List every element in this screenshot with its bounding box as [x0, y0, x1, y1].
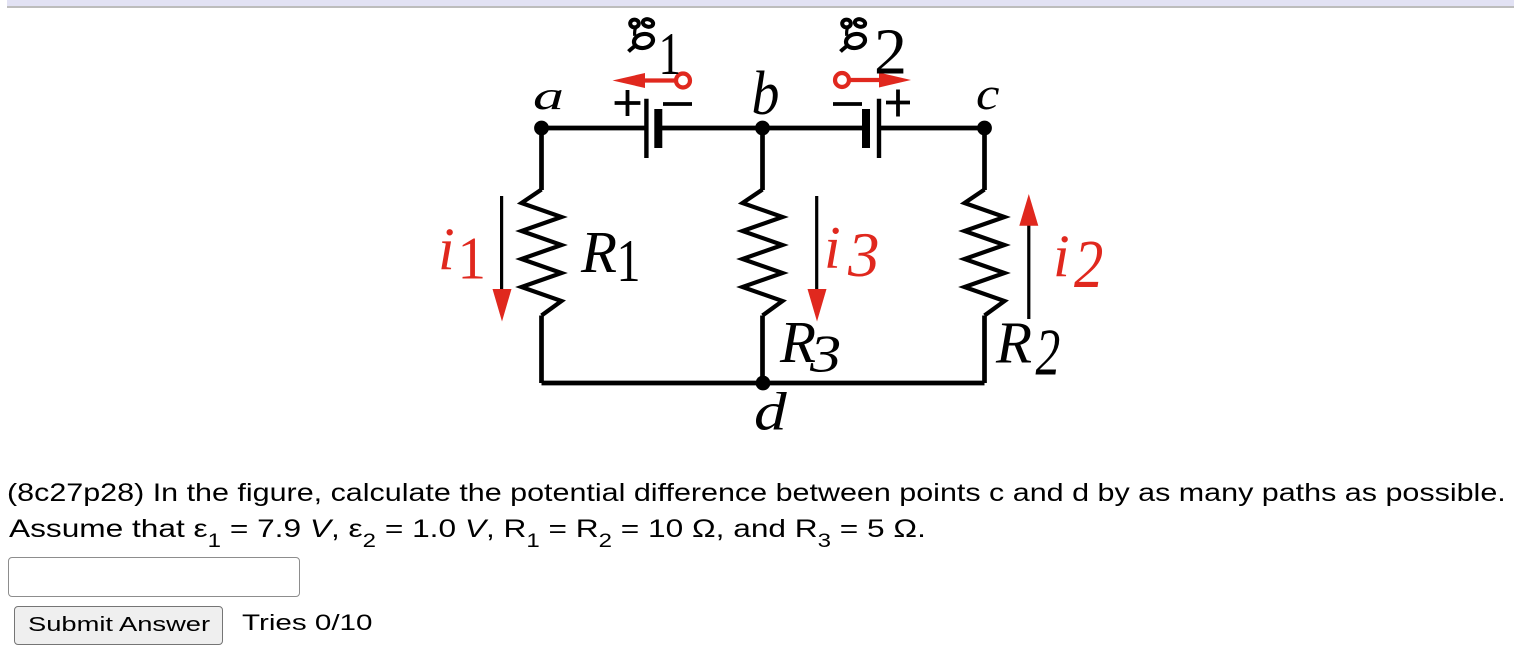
svg-text:1: 1	[659, 22, 681, 88]
svg-text:i: i	[1053, 223, 1070, 289]
svg-text:1: 1	[617, 228, 641, 294]
svg-text:2: 2	[1074, 226, 1103, 303]
svg-text:b: b	[752, 58, 780, 127]
svg-text:3: 3	[847, 220, 880, 290]
svg-text:2: 2	[1036, 314, 1061, 389]
svg-text:c: c	[976, 68, 999, 119]
svg-text:a: a	[533, 74, 564, 118]
svg-text:R: R	[995, 310, 1032, 376]
svg-text:1: 1	[458, 225, 486, 292]
svg-text:R: R	[580, 219, 617, 285]
svg-text:i: i	[824, 215, 841, 281]
svg-text:i: i	[438, 216, 455, 282]
svg-text:d: d	[754, 382, 788, 443]
svg-text:2: 2	[874, 16, 907, 89]
svg-text:3: 3	[809, 324, 841, 383]
